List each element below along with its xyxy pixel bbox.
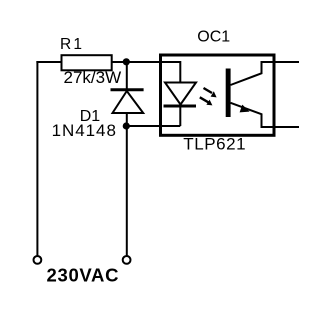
LED cathode bar <box>164 105 197 108</box>
wire LED cathode lead inside box <box>179 106 181 126</box>
label 230VAC <box>47 264 120 285</box>
label 1N4148 <box>52 121 117 140</box>
junction node top (R1/D1) <box>123 58 130 65</box>
light arrow lower <box>200 97 213 105</box>
diode D1 cathode bar <box>111 88 144 91</box>
diode D1 triangle <box>113 91 144 113</box>
transistor collector lead to pin 4 <box>231 62 300 85</box>
wire top-left horizontal to R1 <box>36 61 62 63</box>
label R1 <box>60 36 84 53</box>
transistor emitter lead to pin 3 <box>231 103 300 127</box>
junction node bottom (D1/pin2) <box>123 122 130 129</box>
label D1 <box>80 108 101 125</box>
terminal circle left <box>34 256 42 264</box>
label 27k/3W <box>64 68 122 87</box>
op-to-coupler OC1 package box <box>161 55 275 135</box>
svg-text:R1: R1 <box>60 36 84 53</box>
wire D1 bottom lead down to right terminal <box>126 113 128 256</box>
label TLP621 <box>183 135 246 154</box>
svg-text:TLP621: TLP621 <box>183 135 246 154</box>
label OC1 <box>197 29 230 46</box>
transistor emitter arrow <box>240 105 250 113</box>
wire left vertical (230VAC left leg) <box>36 61 38 256</box>
wire LED anode lead inside box <box>179 61 181 83</box>
wire R1 to optocoupler (top pin 1) <box>111 61 180 63</box>
terminal circle right <box>123 256 131 264</box>
svg-text:27k/3W: 27k/3W <box>64 68 122 87</box>
svg-text:1N4148: 1N4148 <box>52 121 117 140</box>
transistor base bar <box>226 69 231 118</box>
light arrow upper <box>204 88 217 97</box>
resistor R1 body <box>62 55 112 70</box>
LED triangle <box>165 83 196 105</box>
wire D1 top lead <box>126 62 128 89</box>
svg-text:OC1: OC1 <box>197 29 230 46</box>
wire bottom pin 2 into optocoupler <box>126 125 180 127</box>
svg-text:230VAC: 230VAC <box>47 264 120 285</box>
